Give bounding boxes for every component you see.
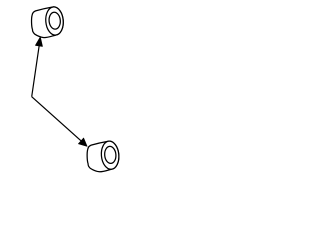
tube A outer face ellipse — [45, 6, 65, 36]
arrowhead into tube A — [36, 37, 43, 46]
tube B body — [87, 141, 119, 172]
tube A body — [32, 7, 64, 38]
tube B outer face ellipse — [100, 140, 120, 170]
connector wire: segment from bend down to tube B — [32, 97, 85, 144]
tube node B (bottom) — [87, 140, 120, 171]
tube A inner face ellipse — [48, 12, 61, 30]
tube B inner face ellipse — [104, 146, 117, 164]
arrowhead into tube B — [79, 138, 88, 146]
tube node A (top) — [32, 6, 65, 37]
connector wire: segment from bend up to tube A — [32, 40, 40, 97]
